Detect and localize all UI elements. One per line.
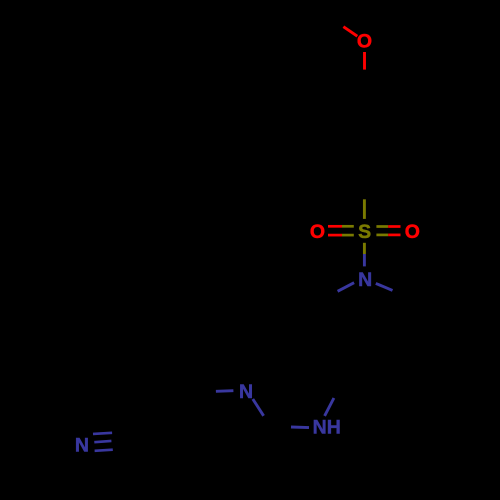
triple bond N#C upper line (blue half)	[93, 433, 112, 434]
bond N-C6 piperidine (blue half)	[376, 283, 393, 290]
bond CH3-N imine (blue half)	[216, 389, 234, 392]
svg-text:N: N	[358, 269, 372, 291]
bond N-C2 piperidine (blue half)	[338, 283, 355, 292]
double bond S=O left, upper line (olive half)	[342, 225, 354, 228]
bond N=C imine (blue half)	[253, 399, 264, 416]
double bond S=O right, upper line (red half)	[388, 225, 400, 228]
svg-text:NH: NH	[313, 416, 341, 438]
bond CH3-O (red half, methoxy)	[343, 27, 357, 37]
svg-text:N: N	[75, 435, 89, 457]
svg-text:O: O	[357, 31, 372, 53]
triple bond N#C lower line (blue half)	[95, 450, 113, 451]
double bond S=O right, lower line (red half)	[388, 234, 400, 237]
bond S-N (olive half)	[363, 243, 366, 254]
svg-text:O: O	[405, 221, 420, 243]
bond C4ring-S (olive half)	[363, 199, 366, 219]
double bond S=O left, lower line (red half)	[328, 234, 342, 237]
double bond S=O left, upper line (red half)	[328, 225, 342, 228]
svg-text:O: O	[310, 221, 325, 243]
double bond S=O right, lower line (olive half)	[376, 234, 388, 237]
bond NH-C4 piperidine (blue half)	[325, 398, 334, 416]
bond C-NH (blue half)	[291, 426, 309, 430]
bond O-C1 ring (red half)	[363, 52, 366, 70]
triple bond N#C middle line (blue half)	[94, 441, 111, 442]
double bond S=O right, upper line (olive half)	[376, 225, 388, 228]
svg-text:N: N	[239, 381, 253, 403]
double bond S=O left, lower line (olive half)	[342, 234, 354, 237]
bond S-N (blue half)	[363, 254, 366, 266]
svg-text:S: S	[358, 221, 371, 243]
